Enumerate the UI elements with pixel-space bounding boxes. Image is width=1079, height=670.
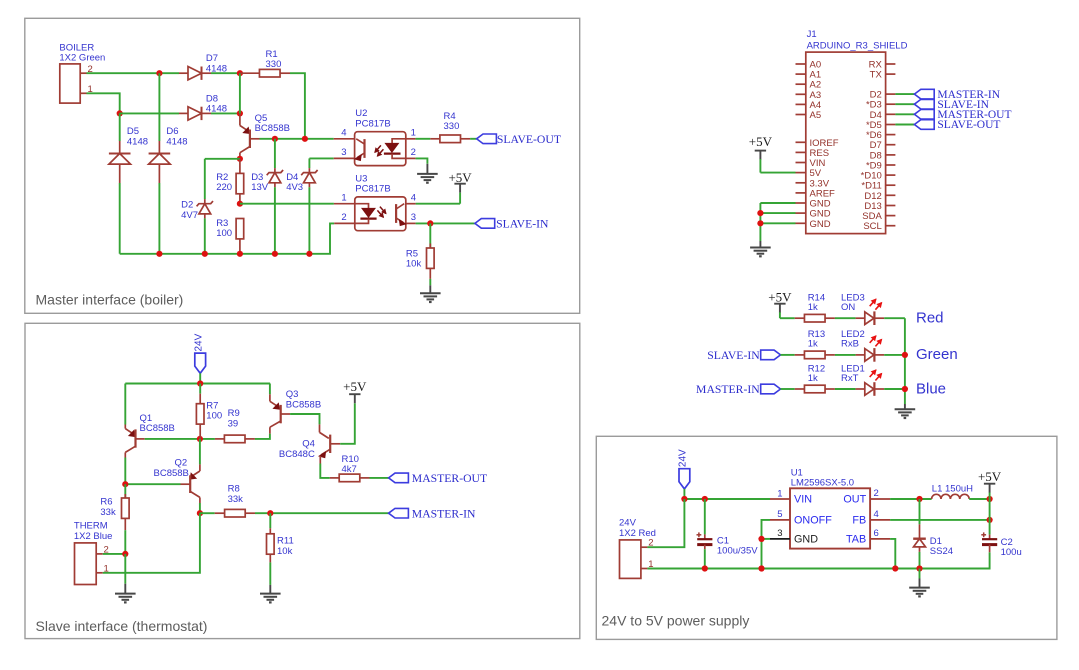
- svg-text:39: 39: [228, 419, 239, 430]
- wire R6 bottom to ground: [124, 554, 126, 584]
- wire bottom rail: [647, 552, 989, 568]
- ground U2 pin2: [426, 164, 428, 174]
- ground R11: [269, 585, 271, 594]
- wire 24V stem: [199, 373, 201, 383]
- junction FB C2: [987, 517, 993, 523]
- svg-text:4k7: 4k7: [342, 464, 357, 475]
- svg-text:Master interface (boiler): Master interface (boiler): [36, 292, 184, 308]
- diode D6 4148: [158, 73, 160, 141]
- net flag SLAVE-OUT: [477, 134, 497, 144]
- resistor R4 330: [416, 138, 431, 140]
- zener diode D4 4V3: [308, 158, 310, 168]
- wire SLAVE-IN to R13: [781, 354, 795, 356]
- junction base row center: [197, 436, 203, 442]
- wire OUT to L1: [890, 498, 932, 500]
- resistor R5 10k: [429, 223, 431, 248]
- J1 left pin A4: [796, 103, 806, 105]
- wire GND1: [760, 202, 795, 204]
- wire LED2 to rail: [884, 354, 905, 356]
- svg-text:Q2: Q2: [175, 457, 188, 468]
- U3 pin 1: [334, 203, 355, 205]
- LED3 light arrows: [870, 299, 876, 306]
- J1 left pin VIN: [796, 162, 806, 164]
- wire D8 row: [120, 112, 179, 114]
- svg-text:2: 2: [411, 147, 416, 158]
- junction SLAVE-IN row / R5: [427, 220, 433, 226]
- junction GND2: [757, 210, 763, 216]
- transistor Q2 BC858B: [199, 464, 201, 471]
- svg-text:R6: R6: [100, 497, 112, 508]
- wire D pin to MASTER-IN: [895, 93, 914, 95]
- pin 2 of THERM: [96, 553, 103, 555]
- wire D7 to R1 junction: [211, 72, 240, 74]
- IC J1 ARDUINO_R3_SHIELD: [806, 52, 886, 234]
- wire LED3 to rail: [884, 317, 905, 319]
- transistor Q3 BC858B: [269, 384, 271, 395]
- svg-text:SLAVE-IN: SLAVE-IN: [707, 349, 760, 362]
- frame box 1: [25, 18, 580, 313]
- junction C1 column: [702, 496, 708, 502]
- IC U1 LM2596SX-5.0: [790, 488, 870, 548]
- zener diode D3 13V: [274, 139, 276, 168]
- wire D pin to MASTER-OUT: [895, 113, 914, 115]
- svg-text:100u/35V: 100u/35V: [717, 546, 758, 557]
- J1 right pin *D11: [886, 184, 896, 186]
- wire GND column: [759, 203, 761, 241]
- U3 internal phototransistor: [395, 204, 397, 223]
- svg-text:GND: GND: [794, 533, 818, 545]
- wire D pin to SLAVE-IN: [895, 103, 914, 105]
- svg-text:4: 4: [874, 509, 879, 520]
- wire ONOFF to GND column: [762, 520, 771, 569]
- wire R13 to LED2: [835, 354, 856, 356]
- wire pin1 down to D8 row: [87, 93, 120, 113]
- wire U3 pin3 to SLAVE-IN: [416, 222, 475, 224]
- frame box 3: [596, 436, 1057, 639]
- wire GND3: [760, 222, 795, 224]
- svg-text:33k: 33k: [228, 494, 244, 505]
- wire +5V to U3 pin4: [416, 203, 461, 205]
- junction bus D1: [916, 565, 922, 571]
- svg-text:R11: R11: [277, 536, 294, 547]
- svg-text:TAB: TAB: [846, 533, 866, 545]
- svg-text:100: 100: [216, 228, 232, 239]
- svg-text:BC858B: BC858B: [286, 400, 321, 411]
- svg-text:ON: ON: [841, 302, 855, 313]
- wire input rail: [684, 498, 770, 500]
- optocoupler U3 PC817B: [355, 197, 406, 231]
- J1 left pin A5: [796, 114, 806, 116]
- svg-text:ARDUINO_R3_SHIELD: ARDUINO_R3_SHIELD: [807, 40, 908, 51]
- svg-text:RxT: RxT: [841, 373, 859, 384]
- wire U2 pin3 to D4 column: [309, 157, 333, 159]
- svg-text:R8: R8: [228, 484, 240, 495]
- U1 pin ONOFF 5: [770, 519, 790, 521]
- junction bus D3: [272, 251, 278, 257]
- junction R11 column: [267, 510, 273, 516]
- wire D pin to SLAVE-OUT: [895, 124, 914, 126]
- svg-text:THERM: THERM: [74, 520, 108, 531]
- transistor Q4 BC848C: [319, 424, 321, 432]
- resistor R9 39: [215, 438, 225, 440]
- frame box 2: [25, 323, 580, 638]
- svg-text:SLAVE-OUT: SLAVE-OUT: [497, 133, 561, 146]
- J1 right pin D2: [886, 93, 896, 95]
- svg-text:4148: 4148: [166, 136, 187, 147]
- U1 pin GND 3: [770, 538, 790, 540]
- svg-text:1k: 1k: [808, 373, 818, 384]
- wire R10 to MASTER-OUT: [370, 477, 389, 479]
- junction base row / R1 column: [302, 136, 308, 142]
- connector 24V 1X2 Red: [620, 540, 641, 579]
- schottky diode D1 SS24: [919, 499, 921, 524]
- pin 1 of 24V conn: [641, 568, 648, 570]
- wire vertical D7-D8 column: [239, 73, 241, 113]
- U2 pin 1: [406, 138, 416, 140]
- wire Q5 collector to D2 column: [205, 158, 240, 160]
- J1 right pin D8: [886, 154, 896, 156]
- J1 left pin 5V: [796, 172, 806, 174]
- svg-text:RxB: RxB: [841, 339, 859, 350]
- net flag MASTER-IN: [914, 89, 934, 99]
- svg-text:Blue: Blue: [916, 380, 946, 397]
- junction Q1 collector / Q2 base / R6: [122, 481, 128, 487]
- J1 left pin IOREF: [796, 141, 806, 143]
- svg-text:BC858B: BC858B: [154, 468, 189, 479]
- U2 internal LED: [392, 139, 406, 144]
- wire Q5 base row to U2 pin4: [260, 138, 334, 140]
- J1 right pin D13: [886, 205, 896, 207]
- U3 pin 2: [334, 222, 355, 224]
- junction Q5 collector: [237, 156, 243, 162]
- wire pin2 up to rail: [647, 499, 684, 547]
- junction rail LED1: [902, 386, 908, 392]
- inductor L1 150uH: [932, 494, 970, 499]
- J1 right pin TX: [886, 73, 896, 75]
- U1 pin TAB 6: [870, 538, 890, 540]
- svg-text:2: 2: [874, 488, 879, 499]
- junction D8 output / Q5 emitter: [237, 110, 243, 116]
- junction THERM pin2: [122, 551, 128, 557]
- resistor R2 220: [239, 159, 241, 174]
- diode D5 4148: [119, 113, 121, 141]
- J1 right pin RX: [886, 63, 896, 65]
- U2 pin 4: [334, 138, 355, 140]
- ground THERM: [124, 584, 126, 594]
- junction on pin2 row at D6 column: [156, 70, 162, 76]
- J1 right pin *D5: [886, 124, 896, 126]
- svg-text:+5V: +5V: [768, 290, 792, 305]
- junction rail LED2: [902, 352, 908, 358]
- svg-text:4148: 4148: [127, 136, 148, 147]
- U1 pin OUT 2: [870, 498, 890, 500]
- svg-text:GND: GND: [810, 219, 831, 230]
- wire THERM pin2 to R6: [103, 553, 126, 555]
- J1 right pin D7: [886, 144, 896, 146]
- J1 left pin GND: [796, 222, 806, 224]
- wire top rail box2: [125, 383, 270, 385]
- junction 24V rail: [197, 380, 203, 386]
- svg-text:220: 220: [216, 182, 232, 193]
- svg-text:+5V: +5V: [343, 379, 367, 394]
- svg-text:3: 3: [341, 147, 346, 158]
- svg-text:6: 6: [874, 528, 879, 539]
- svg-text:BC858B: BC858B: [255, 123, 290, 134]
- wire Q3 base to Q4 collector: [290, 414, 319, 424]
- junction GND3: [757, 220, 763, 226]
- svg-text:J1: J1: [807, 29, 817, 40]
- svg-text:4V3: 4V3: [286, 182, 303, 193]
- svg-text:10k: 10k: [277, 546, 293, 557]
- wire Q2 collector down: [199, 503, 201, 513]
- svg-text:PC817B: PC817B: [355, 118, 390, 129]
- U3 pin 4: [406, 203, 416, 205]
- svg-text:+5V: +5V: [749, 134, 773, 149]
- junction bus GND column: [758, 565, 764, 571]
- ground psu: [919, 569, 921, 579]
- diode D7 4148: [179, 72, 188, 74]
- svg-text:24V: 24V: [193, 333, 204, 351]
- svg-text:BC848C: BC848C: [279, 449, 315, 460]
- ground leds: [904, 404, 906, 409]
- svg-text:SCL: SCL: [863, 221, 881, 232]
- wire MASTER-IN to R12: [781, 388, 795, 390]
- wire R9 to Q3 collector: [255, 434, 270, 439]
- U3 light arrows: [377, 210, 383, 217]
- wire L1 to +5V rail: [969, 498, 989, 500]
- J1 left pin A2: [796, 83, 806, 85]
- svg-text:Red: Red: [916, 310, 944, 327]
- wire THERM pin1 up to R8 row: [103, 513, 200, 573]
- junction R8 row: [197, 510, 203, 516]
- U2 pin 2: [406, 157, 416, 159]
- svg-text:ONOFF: ONOFF: [794, 514, 832, 526]
- LED LED1 RxT: [856, 388, 865, 390]
- J1 right pin *D3: [886, 103, 896, 105]
- J1 right pin *D6: [886, 134, 896, 136]
- svg-text:3: 3: [411, 212, 416, 223]
- resistor R14 1k: [795, 317, 805, 319]
- svg-text:100u: 100u: [1001, 547, 1022, 558]
- svg-text:24V: 24V: [678, 449, 689, 467]
- J1 left pin A3: [796, 93, 806, 95]
- net flag SLAVE-OUT: [914, 120, 934, 130]
- resistor R7 100: [199, 384, 201, 394]
- wire R1 to U2 pin4 column: [290, 73, 305, 139]
- net flag MASTER-IN: [389, 508, 409, 518]
- svg-text:LM2596SX-5.0: LM2596SX-5.0: [791, 478, 854, 489]
- svg-text:SLAVE-IN: SLAVE-IN: [496, 218, 549, 231]
- svg-text:33k: 33k: [100, 507, 116, 518]
- wire left rail to Q1 emitter: [124, 384, 126, 425]
- resistor R8 33k: [200, 512, 215, 514]
- pin 2 of BOILER: [80, 72, 86, 74]
- junction D8 row / D5 column: [117, 110, 123, 116]
- U3 internal LED: [355, 204, 369, 209]
- U1 pin FB 4: [870, 519, 890, 521]
- wire pin2 to D7: [87, 72, 180, 74]
- svg-text:FB: FB: [852, 514, 866, 526]
- svg-text:4V7: 4V7: [181, 210, 198, 221]
- J1 left pin A1: [796, 73, 806, 75]
- J1 left pin GND: [796, 202, 806, 204]
- U2 internal phototransistor: [363, 139, 365, 158]
- svg-text:Green: Green: [916, 346, 958, 363]
- LED LED2 RxB: [856, 354, 865, 356]
- J1 left pin 3.3V: [796, 182, 806, 184]
- svg-text:1X2 Blue: 1X2 Blue: [74, 531, 113, 542]
- wire ground bus: [120, 223, 335, 253]
- wire U2 pin2 to ground: [416, 158, 428, 163]
- junction +5V column: [987, 496, 993, 502]
- resistor R13 1k: [795, 354, 805, 356]
- svg-text:4: 4: [411, 193, 416, 204]
- svg-text:1X2 Green: 1X2 Green: [59, 52, 105, 63]
- LED LED3 ON: [856, 317, 865, 319]
- junction bus C1: [702, 565, 708, 571]
- J1 left pin AREF: [796, 192, 806, 194]
- wire center junction to Q2 emitter: [199, 439, 201, 465]
- resistor R12 1k: [795, 388, 805, 390]
- svg-text:A5: A5: [810, 110, 822, 121]
- wire Q1 base to center junction: [145, 438, 215, 440]
- junction base row / D3 column: [272, 136, 278, 142]
- svg-text:VIN: VIN: [794, 494, 812, 506]
- net flag SLAVE-IN: [475, 219, 495, 229]
- wire Q4 base to +5V: [340, 403, 355, 444]
- net flag MASTER-OUT: [389, 473, 409, 483]
- wire C2 column: [989, 499, 991, 535]
- pin 1 of THERM: [96, 572, 103, 574]
- wire LED1 to rail: [884, 388, 905, 390]
- svg-text:13V: 13V: [251, 182, 269, 193]
- U1 pin VIN 1: [770, 498, 790, 500]
- wire led rail: [904, 318, 906, 404]
- wire GND2: [760, 212, 795, 214]
- svg-text:4: 4: [341, 128, 346, 139]
- ground arduino: [759, 241, 761, 248]
- svg-text:1k: 1k: [808, 339, 818, 350]
- resistor R1 330: [240, 72, 260, 74]
- svg-text:330: 330: [266, 59, 282, 70]
- svg-text:1: 1: [777, 488, 782, 499]
- supply flag 24V psu: [679, 469, 690, 489]
- wire R2/R3 junction to U3 pin1: [240, 203, 334, 205]
- capacitor C2 100u: [989, 535, 991, 540]
- svg-text:330: 330: [444, 121, 460, 132]
- J1 left pin A0: [796, 63, 806, 65]
- junction bus R3: [237, 251, 243, 257]
- svg-text:PC817B: PC817B: [355, 184, 390, 195]
- svg-text:3: 3: [777, 528, 782, 539]
- diode D8 4148: [179, 112, 188, 114]
- svg-text:MASTER-OUT: MASTER-OUT: [412, 472, 487, 485]
- svg-text:L1 150uH: L1 150uH: [932, 483, 973, 494]
- svg-text:BC858B: BC858B: [140, 423, 175, 434]
- svg-text:2: 2: [341, 212, 346, 223]
- wire R14 to LED3: [835, 317, 856, 319]
- LED1 light arrows: [870, 370, 876, 377]
- svg-text:24V: 24V: [619, 518, 637, 529]
- resistor R6 33k: [124, 484, 126, 498]
- junction bus TAB: [892, 565, 898, 571]
- U2 light arrows: [375, 145, 381, 152]
- J1 left pin GND: [796, 212, 806, 214]
- optocoupler U2 PC817B: [355, 132, 406, 166]
- resistor R10 4k7: [330, 477, 339, 479]
- connector BOILER: [60, 64, 80, 103]
- svg-text:SS24: SS24: [930, 546, 953, 557]
- svg-text:10k: 10k: [406, 259, 422, 270]
- svg-text:MASTER-IN: MASTER-IN: [412, 507, 476, 520]
- svg-text:OUT: OUT: [843, 494, 866, 506]
- J1 left pin RES: [796, 151, 806, 153]
- junction ONOFF-GND: [758, 536, 764, 542]
- LED2 light arrows: [870, 336, 876, 343]
- wire TAB down to bus: [890, 539, 895, 569]
- svg-text:1: 1: [411, 128, 416, 139]
- pin 1 of BOILER: [80, 92, 86, 94]
- junction D1 top: [916, 496, 922, 502]
- svg-text:+5V: +5V: [448, 170, 472, 185]
- svg-text:TX: TX: [870, 70, 883, 81]
- wire D8 to Q5 junction: [211, 112, 240, 114]
- wire Q1 collector down: [124, 458, 126, 485]
- svg-text:24V to 5V power supply: 24V to 5V power supply: [602, 613, 750, 629]
- svg-text:SLAVE-OUT: SLAVE-OUT: [937, 119, 1000, 131]
- transistor Q5 BC858B: [239, 113, 241, 125]
- wire Q4 emitter to R10: [320, 464, 330, 478]
- J1 right pin D4: [886, 113, 896, 115]
- svg-text:Slave interface (thermostat): Slave interface (thermostat): [36, 618, 208, 634]
- junction R2/R3 row: [237, 201, 243, 207]
- pin 2 of 24V conn: [641, 546, 648, 548]
- wire R12 to LED1: [835, 388, 856, 390]
- wire Q2 base row: [125, 483, 180, 485]
- wire 24V stem psu: [683, 489, 685, 499]
- zener diode D2 4V7: [204, 159, 206, 199]
- net flag SLAVE-IN: [914, 99, 934, 109]
- svg-text:100: 100: [206, 411, 222, 422]
- net flag MASTER-OUT: [914, 110, 934, 120]
- svg-text:MASTER-IN: MASTER-IN: [696, 383, 760, 396]
- svg-text:5: 5: [777, 509, 782, 520]
- supply flag 24V box2: [195, 353, 206, 373]
- wire R4 to SLAVE-OUT: [470, 138, 477, 140]
- wire +5V to 5V pin: [760, 172, 795, 174]
- wire GND pin stub: [762, 538, 771, 540]
- ground R5: [429, 285, 431, 293]
- resistor R3 100: [236, 219, 244, 239]
- junction bus D4: [306, 251, 312, 257]
- resistor R11 10k: [269, 513, 271, 528]
- J1 right pin SCL: [886, 225, 896, 227]
- J1 right pin D12: [886, 194, 896, 196]
- wire +5V to R14: [780, 317, 795, 319]
- U3 pin 3: [406, 222, 416, 224]
- connector THERM: [75, 543, 97, 585]
- junction D7 output: [237, 70, 243, 76]
- junction bus D6: [156, 251, 162, 257]
- J1 right pin *D10: [886, 174, 896, 176]
- junction bus D2: [202, 251, 208, 257]
- svg-text:1k: 1k: [808, 302, 818, 313]
- junction 24V: [681, 496, 687, 502]
- U2 pin 3: [334, 157, 355, 159]
- wire FB row: [890, 519, 990, 521]
- J1 right pin SDA: [886, 215, 896, 217]
- capacitor C1 100u/35V: [704, 499, 706, 534]
